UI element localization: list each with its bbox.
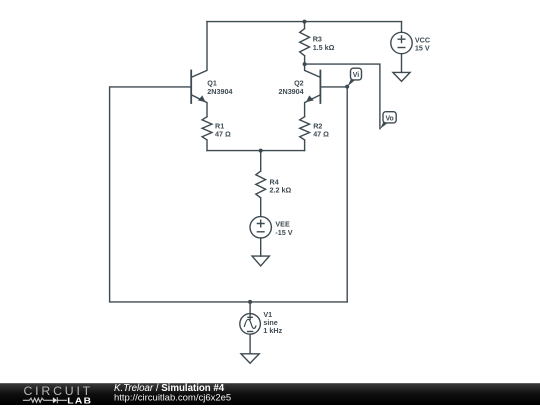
wire Vi vertical (346, 87, 348, 302)
voltage source V1 (sine) (240, 314, 261, 335)
voltage source VEE (250, 217, 271, 238)
label R1 47 Ohm (215, 122, 231, 139)
wire VCC to ground (401, 54, 403, 73)
ground (below V1) (241, 354, 259, 363)
wire left loop (Q1 base to bottom) (110, 87, 348, 302)
wire Q2 base (320, 86, 347, 88)
wire top rail (Q1 collector to VCC) (207, 21, 402, 23)
label VEE -15 V (275, 220, 292, 237)
wire VCC drop (401, 22, 403, 33)
ground (below VEE) (252, 256, 269, 266)
svg-text:Vi: Vi (353, 72, 359, 79)
wire emitter rail (207, 150, 305, 152)
label R4 2.2 kOhm (270, 177, 292, 194)
node R3 bottom / Q2 collector / Vo (303, 62, 307, 66)
label R3 1.5 kOhm (313, 35, 335, 52)
resistor R2 (300, 117, 310, 151)
wire V1 top (249, 302, 251, 314)
resistor R1 (202, 117, 212, 151)
label R2 47 Ohm (313, 122, 329, 139)
label V1 sine 1 kHz (263, 310, 282, 335)
voltage source VCC (391, 32, 412, 53)
wire Vo branch (305, 64, 380, 129)
label VCC 15 V (415, 35, 430, 52)
svg-text:http://circuitlab.com/cj6x2e5: http://circuitlab.com/cj6x2e5 (114, 392, 231, 403)
CircuitLab logo text LAB (67, 396, 92, 405)
label Q1 2N3904 (207, 79, 232, 96)
svg-text:1 kHz: 1 kHz (263, 326, 282, 335)
svg-text:1.5 kΩ: 1.5 kΩ (313, 43, 335, 52)
svg-text:-15 V: -15 V (275, 228, 292, 237)
wire V1 to ground (249, 334, 251, 354)
resistor R3 (300, 22, 310, 65)
svg-text:LAB: LAB (67, 396, 92, 405)
node flag Vo (380, 112, 396, 129)
node emitter rail / R4 (259, 149, 263, 153)
node bottom wire / V1 (248, 300, 252, 304)
CircuitLab logo resistor-diode symbol (23, 397, 67, 403)
resistor R4 (256, 151, 266, 217)
svg-text:2.2 kΩ: 2.2 kΩ (270, 186, 292, 195)
label Q2 2N3904 (279, 79, 304, 96)
svg-text:47 Ω: 47 Ω (215, 130, 231, 139)
svg-text:15 V: 15 V (415, 44, 430, 53)
ground (below VCC) (393, 72, 410, 81)
wire VEE to ground (260, 238, 262, 256)
transistor Q2 (305, 64, 321, 117)
node flag Vi (348, 68, 362, 86)
svg-text:Vo: Vo (385, 115, 393, 122)
transistor Q1 (191, 22, 207, 117)
node top rail / R3 junction (303, 20, 307, 24)
svg-text:2N3904: 2N3904 (279, 87, 304, 96)
node Q2 base / Vi (345, 85, 349, 89)
svg-text:47 Ω: 47 Ω (313, 130, 329, 139)
svg-text:2N3904: 2N3904 (207, 87, 232, 96)
